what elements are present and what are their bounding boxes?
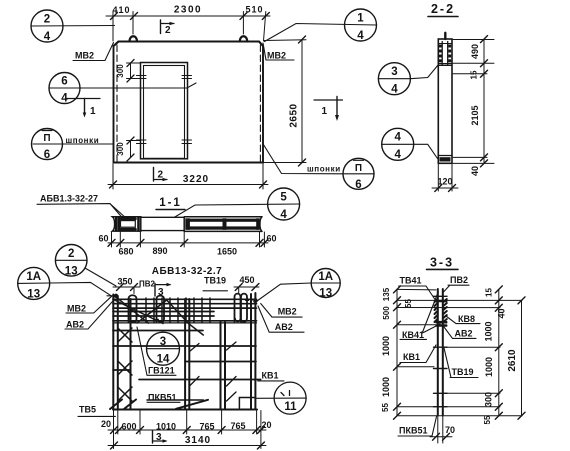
callout circle 2/4 [31, 10, 115, 43]
title 1-1 [156, 197, 185, 210]
section 1-1 dimension 60/680/890/1650/60 [108, 232, 268, 247]
svg-text:4: 4 [280, 209, 287, 221]
svg-text:ПВ2: ПВ2 [139, 280, 156, 289]
svg-text:П: П [43, 133, 50, 144]
dim text 2105 [470, 105, 480, 125]
section 3-3 bar rungs [434, 296, 448, 406]
dim text 3220 [183, 174, 209, 185]
label КВ8 [446, 314, 480, 324]
svg-text:890: 890 [152, 246, 167, 256]
svg-text:2: 2 [165, 25, 171, 36]
svg-text:шпонки: шпонки [66, 136, 100, 145]
label ТВ41 [399, 276, 437, 303]
section 3-3 top anchor hatch left [435, 299, 438, 322]
svg-text:5: 5 [280, 192, 287, 204]
callout circle 3/14 [147, 332, 180, 365]
section 2-2 top loop [444, 33, 446, 39]
svg-text:510: 510 [245, 5, 263, 15]
section 3-3 left dimension line [394, 286, 401, 419]
label МВ2 bottom-left [66, 296, 112, 313]
dim text 20 left [101, 419, 111, 429]
svg-text:55: 55 [381, 403, 390, 412]
svg-text:1000: 1000 [484, 357, 494, 377]
svg-text:15: 15 [470, 70, 479, 79]
dimension 70 (3-3) [430, 417, 455, 444]
svg-text:АВ2: АВ2 [275, 322, 293, 332]
title АБВ13-32-27 [152, 266, 222, 277]
svg-text:ТВ19: ТВ19 [204, 276, 226, 286]
lifting loop right [240, 36, 247, 41]
dim text 765 first [199, 422, 214, 432]
svg-text:МВ2: МВ2 [278, 307, 297, 317]
callout circle 4/4 [382, 128, 438, 161]
door opening [141, 63, 188, 159]
dim text 1010 [156, 422, 176, 432]
svg-text:60: 60 [266, 234, 276, 244]
dim text 55 left bottom [381, 403, 390, 412]
svg-text:4: 4 [357, 30, 364, 42]
callout circle 1/4 [265, 9, 377, 42]
svg-text:МВ2: МВ2 [267, 51, 286, 61]
svg-text:6: 6 [44, 149, 50, 161]
svg-text:13: 13 [319, 288, 332, 300]
svg-text:ТВ5: ТВ5 [79, 405, 96, 415]
dimension 2650 right [264, 36, 306, 166]
corner anchor top-left [114, 42, 119, 47]
hook U-bar right 1 [235, 294, 241, 322]
svg-text:4: 4 [61, 93, 68, 105]
label АВ2 bottom-left [65, 300, 114, 330]
svg-text:МВ2: МВ2 [67, 304, 86, 314]
panel inner dashed line right [259, 45, 261, 162]
section 2-2 bottom dimension 120 [432, 164, 458, 191]
panel inner dashed line left [116, 45, 118, 162]
svg-text:2105: 2105 [470, 105, 480, 125]
section marker 3 top [155, 283, 172, 298]
svg-text:300: 300 [116, 64, 125, 78]
svg-text:15: 15 [485, 288, 494, 297]
svg-text:3220: 3220 [183, 174, 209, 185]
svg-text:1: 1 [357, 13, 364, 25]
svg-text:20: 20 [101, 419, 111, 429]
section 3-3 horizontal extension lines [397, 289, 522, 415]
svg-text:2: 2 [44, 14, 50, 26]
section marker 1 right [314, 97, 343, 122]
label МВ2 top-left [73, 43, 114, 61]
panel outline [114, 42, 264, 163]
label АБВ1.3-32-27 [37, 194, 128, 220]
svg-text:КВ8: КВ8 [458, 314, 475, 324]
title 3-3 [427, 256, 459, 270]
dimension 3220 bottom [108, 164, 268, 189]
svg-text:ПКВ51: ПКВ51 [399, 426, 427, 436]
dimension 300 lower (door) [127, 137, 141, 161]
svg-text:40: 40 [497, 308, 507, 318]
dim text 15 right [485, 288, 494, 297]
svg-text:АВ2: АВ2 [455, 329, 473, 339]
callout circle 3/4 [378, 63, 438, 96]
callout circle 1А/13 left [18, 267, 112, 300]
svg-text:13: 13 [65, 266, 78, 278]
dim text 890 [152, 246, 167, 256]
svg-text:1А: 1А [318, 271, 333, 283]
section 1-1 left embed [112, 217, 140, 231]
label ТВ5 [78, 405, 115, 417]
svg-text:3140: 3140 [185, 435, 211, 446]
svg-text:1000: 1000 [484, 321, 494, 341]
svg-text:ПКВ51: ПКВ51 [148, 393, 176, 403]
svg-text:4: 4 [44, 31, 51, 43]
door hinge mark lower-left [137, 140, 147, 144]
svg-text:14: 14 [157, 354, 170, 366]
dim text 2300 [174, 5, 202, 16]
title 2-2 [428, 2, 458, 17]
label КВ1 (mesh) [258, 371, 284, 381]
section 2-2 right dimension chain 490/15/2105/40 [453, 36, 494, 167]
anchor dot left [107, 294, 118, 298]
svg-text:МВ2: МВ2 [75, 51, 94, 61]
svg-text:1-1: 1-1 [159, 197, 182, 209]
mesh diagonals left column [118, 328, 132, 401]
hook U-bar left 2 [157, 296, 165, 323]
svg-text:55: 55 [404, 299, 413, 308]
section 2-2 bottom embed [438, 156, 452, 162]
lifting loop left [130, 36, 138, 41]
svg-text:6: 6 [355, 179, 361, 191]
dim text 55 right bottom [483, 415, 492, 424]
svg-text:300: 300 [116, 142, 125, 156]
label ТВ19 (3-3) [444, 348, 478, 378]
svg-text:П: П [355, 163, 362, 174]
svg-text:680: 680 [118, 247, 133, 257]
svg-text:20: 20 [261, 420, 271, 430]
dim text 40 right [497, 308, 507, 318]
svg-text:1010: 1010 [156, 422, 176, 432]
label АВ2 bottom-right [258, 306, 304, 332]
svg-text:КВ1: КВ1 [262, 371, 279, 381]
dim text 55 small [404, 299, 413, 308]
svg-text:350: 350 [117, 277, 132, 287]
label ПКВ51 (mesh) [147, 393, 180, 403]
svg-text:4: 4 [394, 132, 401, 144]
svg-text:КВ1: КВ1 [403, 352, 420, 362]
dim text 510 [245, 5, 263, 15]
svg-text:1000: 1000 [381, 377, 391, 397]
dim text 1000 right lower [484, 357, 494, 377]
section marker 2 top [161, 20, 175, 36]
svg-text:500: 500 [382, 306, 391, 320]
svg-text:шпонки: шпонки [307, 165, 341, 174]
dim text 135 [382, 287, 391, 301]
svg-text:1: 1 [90, 106, 96, 117]
svg-text:ГВ121: ГВ121 [148, 366, 175, 376]
dim text 1000 right upper [484, 321, 494, 341]
label ПКВ51 (3-3) [398, 417, 437, 437]
callout circle 11 dashed [256, 382, 306, 414]
svg-text:ТВ19: ТВ19 [452, 367, 474, 377]
section 3-3 top anchor hatch right [443, 299, 447, 322]
mesh main verticals [113, 293, 255, 410]
svg-text:600: 600 [121, 422, 136, 432]
dim text 1000 left lower [381, 377, 391, 397]
dimension 3140 [108, 435, 266, 449]
callout circle 1А/13 right [257, 269, 340, 302]
section 3-3 right dimension line 1 [495, 286, 502, 419]
svg-text:3: 3 [156, 432, 162, 443]
svg-text:13: 13 [27, 289, 40, 301]
svg-text:2: 2 [158, 170, 164, 181]
corner anchor top-right [259, 42, 263, 47]
callout circle 5/4 [174, 188, 300, 221]
svg-text:120: 120 [437, 177, 452, 187]
svg-text:490: 490 [470, 44, 480, 59]
mesh diagonals top band [114, 297, 204, 335]
svg-text:2-2: 2-2 [431, 2, 455, 16]
svg-text:1000: 1000 [381, 336, 391, 356]
mesh small diagonals mid-right [190, 342, 237, 401]
dim text 600 [121, 422, 136, 432]
callout circle 6/4 [49, 73, 196, 105]
callout П/6 right with шпонки [263, 144, 374, 191]
dim text 60 right [266, 234, 276, 244]
svg-text:ТВ41: ТВ41 [400, 276, 422, 286]
rebar ПКВ51 horizontal [147, 399, 203, 401]
svg-text:3-3: 3-3 [430, 256, 454, 270]
svg-text:ПВ2: ПВ2 [450, 275, 468, 285]
svg-text:135: 135 [382, 287, 391, 301]
mesh band short verticals [146, 298, 210, 323]
svg-text:4: 4 [391, 84, 398, 96]
label ПВ2 (3-3) [443, 275, 469, 293]
dim text 300 lower [116, 142, 125, 156]
svg-text:АБВ1.3-32-27: АБВ1.3-32-27 [40, 194, 98, 204]
svg-text:2650: 2650 [289, 103, 300, 127]
dim text 410 [112, 5, 130, 15]
svg-text:4: 4 [394, 149, 401, 161]
svg-text:765: 765 [230, 421, 245, 431]
label МВ2 bottom-right [261, 304, 302, 318]
dim text 40 [470, 166, 480, 176]
dim text 300 right [484, 392, 494, 407]
anchor dot right [246, 299, 258, 303]
label ТВ19 [203, 276, 228, 291]
callout circle 2/13 [55, 244, 116, 286]
svg-text:60: 60 [98, 234, 108, 244]
section 3-3 right dimension line 2 (2610) [518, 297, 525, 419]
label КВ41 [400, 292, 440, 340]
mesh lower horizontals [113, 331, 257, 410]
section marker 3 bottom [153, 430, 168, 443]
bottom dimension chain 20/600/1010/765/765/20 [108, 411, 266, 449]
dim text 60 left [98, 234, 108, 244]
mesh diagonal hatches bottom [110, 400, 208, 410]
svg-text:3: 3 [160, 336, 166, 348]
svg-text:40: 40 [470, 166, 480, 176]
dimension 410/2300/510 top [106, 12, 270, 42]
svg-text:1: 1 [322, 106, 328, 117]
dim text 680 [118, 247, 133, 257]
dim text 1650 [217, 247, 237, 257]
label МВ2 top-right [263, 43, 294, 61]
svg-text:КВ41: КВ41 [402, 330, 424, 340]
callout П/6 left with шпонки [32, 129, 114, 162]
label АВ2 (3-3) [444, 327, 476, 339]
mesh top band horizontals [113, 299, 257, 323]
dim text 20 right [261, 420, 271, 430]
svg-text:1650: 1650 [217, 247, 237, 257]
dim text 2650 [289, 103, 300, 127]
svg-text:765: 765 [199, 422, 214, 432]
label КВ1 (3-3) [400, 345, 436, 363]
hook U-bar right 2 [241, 294, 247, 322]
svg-text:1А: 1А [26, 271, 41, 283]
section 3-3 bar [438, 289, 443, 416]
door hinge mark lower-right [182, 140, 192, 144]
step detail right [239, 398, 254, 409]
svg-text:2610: 2610 [507, 349, 518, 372]
svg-text:3: 3 [391, 66, 397, 78]
svg-text:300: 300 [484, 392, 494, 407]
dim text 490 [470, 44, 480, 59]
section 1-1 right embed [184, 217, 262, 232]
svg-text:11: 11 [284, 401, 297, 413]
dim text 2610 [507, 349, 518, 372]
section 1-1 bar outline [141, 217, 184, 230]
dimension 300 upper (door) [127, 60, 141, 83]
section marker 1 left [66, 99, 100, 118]
section 2-2 top embed detail [438, 42, 452, 66]
section marker 2 bottom [154, 168, 168, 182]
dim text 300 upper [116, 64, 125, 78]
section 2-2 bar outline [438, 39, 452, 163]
dimension 450 [234, 275, 259, 293]
dim text 1000 left upper [381, 336, 391, 356]
svg-text:2: 2 [68, 248, 74, 260]
door hinge mark upper-right [182, 76, 192, 79]
svg-text:2300: 2300 [174, 5, 202, 16]
svg-text:55: 55 [483, 415, 492, 424]
label ГВ121 [137, 327, 176, 376]
dim text 15 [470, 70, 479, 79]
hook U-bar left 1 [129, 295, 137, 322]
dim text 765 second [230, 421, 245, 431]
svg-text:6: 6 [61, 76, 67, 88]
svg-text:АВ2: АВ2 [66, 320, 84, 330]
svg-text:70: 70 [445, 425, 455, 435]
svg-text:450: 450 [239, 275, 254, 285]
door hinge mark upper-left [137, 76, 147, 79]
rebar КВ1 horizontal [139, 379, 261, 381]
dimension 350 [113, 277, 140, 294]
label ПВ2 small [139, 280, 156, 289]
dim text 500 [382, 306, 391, 320]
svg-text:410: 410 [112, 5, 130, 15]
